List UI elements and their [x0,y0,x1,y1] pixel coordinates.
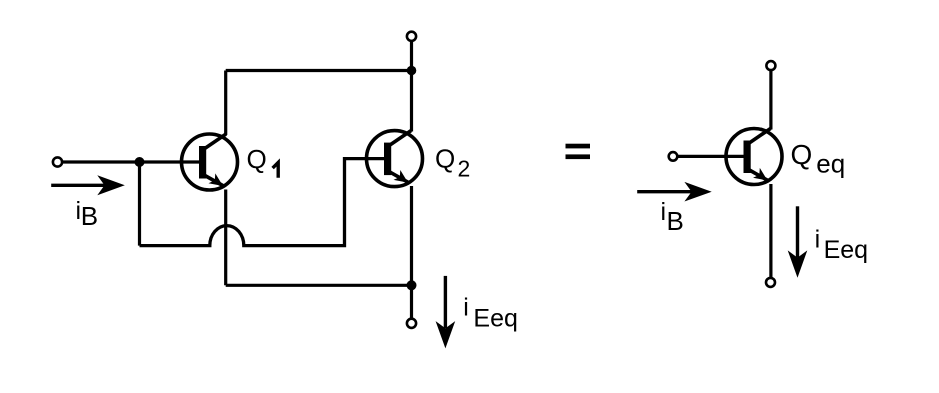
arrow iEeq (right, down) [788,206,808,277]
wire: bottom junction to bottom terminal [410,285,413,319]
svg-text:i: i [815,226,821,254]
arrow iB (right) [637,182,712,202]
input terminal (right circuit) [669,152,678,161]
top terminal [407,32,416,41]
arrow iEeq (left, down) [436,276,456,349]
equals sign [566,144,591,159]
svg-text:2: 2 [458,155,471,181]
wire: crossover run to Q2 base (with hop) [140,159,386,246]
wire: Qeq collector up [769,70,772,129]
top terminal (right) [766,61,775,70]
wire: Qeq emitter down [769,184,772,278]
label iB (left) [76,197,99,231]
wire: Q1 emitter down [224,190,227,286]
svg-text:i: i [661,198,667,226]
label iEeq (left) [463,294,518,333]
arrow iB (left) [51,175,125,195]
wire: top rail [226,69,412,72]
bottom terminal (right) [766,278,775,287]
wire: input terminal to Q1 base [62,160,200,163]
svg-text:eq: eq [816,149,845,179]
label Q1 [247,144,279,178]
wire: right input to Qeq base [678,155,746,158]
node: top junction dot [407,66,417,76]
node: bottom junction dot [407,280,417,290]
svg-text:B: B [667,206,684,236]
svg-text:Q: Q [247,144,267,174]
transistor Q1 [182,134,238,190]
bottom terminal [407,319,416,328]
wire: Q2 emitter down to bottom junction [410,186,413,285]
svg-text:Q: Q [435,143,455,173]
transistor Qeq [726,129,782,185]
wire: bottom rail from Q1 emitter [226,284,412,287]
label Qeq [791,139,846,179]
svg-text:B: B [81,201,98,231]
label iB (right) [661,198,684,236]
wire: input node down [138,162,141,246]
label Q2 [435,143,470,181]
svg-text:i: i [463,294,469,322]
wire: top junction to top terminal [410,41,413,71]
label iEeq (right) [815,226,868,264]
svg-text:Eeq: Eeq [473,305,517,333]
node: input junction dot [135,157,145,167]
input terminal (left circuit) [53,157,62,166]
transistor Q2 [367,131,423,187]
svg-text:Q: Q [791,139,813,170]
wire: Q1 collector up [224,71,227,136]
svg-text:Eeq: Eeq [824,236,868,264]
wire: Q2 collector up to top junction [410,71,413,132]
